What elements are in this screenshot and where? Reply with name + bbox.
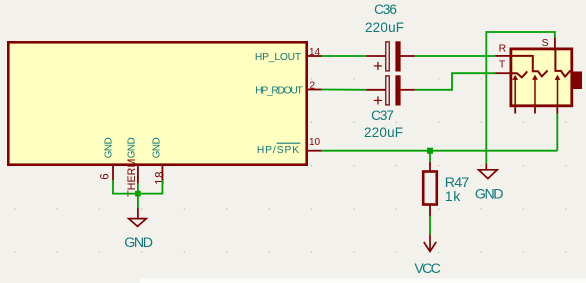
capacitor C36 left plate xyxy=(386,42,389,71)
ground symbol GND (right) xyxy=(479,164,498,179)
svg-text:C36: C36 xyxy=(374,2,396,17)
wire C36 to jack R xyxy=(415,55,495,57)
junction at R47 xyxy=(427,148,433,154)
svg-text:S: S xyxy=(542,37,549,49)
svg-text:HP_RDOUT: HP_RDOUT xyxy=(255,85,303,96)
resistor R47 bottom pin xyxy=(429,205,431,217)
pin 14 HP_LOUT stub xyxy=(308,55,322,57)
jack tip contact xyxy=(510,71,527,77)
svg-text:VCC: VCC xyxy=(414,261,440,277)
capacitor C36 right plate xyxy=(395,41,400,71)
capacitor C37 right plate xyxy=(395,75,400,105)
wire pin10 net xyxy=(322,150,558,152)
jack bottom pin 3 stub xyxy=(556,107,558,114)
wire THERM pin down xyxy=(137,184,139,208)
wire C37 to jack T xyxy=(415,73,495,90)
jack pin T stub xyxy=(495,72,510,74)
overline on SPK xyxy=(277,142,301,144)
jack bottom pin 1 stub xyxy=(514,107,516,114)
jack bottom pin 2 stub xyxy=(534,107,536,114)
capacitor C37 left plate xyxy=(386,76,389,105)
pin 6 GND stub (bottom) xyxy=(112,166,114,181)
svg-text:GND: GND xyxy=(124,235,152,251)
svg-text:220uF: 220uF xyxy=(365,20,404,35)
svg-text:GND: GND xyxy=(104,137,115,158)
capacitor C37 right pin xyxy=(400,89,415,91)
svg-text:2: 2 xyxy=(310,80,316,91)
wire pin2 to C37 xyxy=(322,89,367,91)
svg-text:220uF: 220uF xyxy=(364,125,403,140)
pin 2 HP_RDOUT stub xyxy=(308,89,322,91)
jack sleeve contact xyxy=(555,50,570,77)
svg-text:18: 18 xyxy=(155,171,167,185)
jack plug arrow 2 xyxy=(532,75,538,106)
jack ring contact xyxy=(510,56,547,77)
svg-text:C37: C37 xyxy=(371,108,393,123)
svg-text:HP_LOUT: HP_LOUT xyxy=(255,52,302,63)
jack plug arrow 3 xyxy=(555,75,561,106)
svg-text:6: 6 xyxy=(99,173,111,179)
junction at GND node xyxy=(135,191,141,197)
svg-text:HP/SPK: HP/SPK xyxy=(257,145,300,156)
capacitor C36 right pin xyxy=(400,55,415,57)
svg-text:+: + xyxy=(373,56,383,75)
jack plug arrow 1 xyxy=(512,75,518,106)
svg-text:GND: GND xyxy=(475,186,503,202)
IC U body xyxy=(8,42,306,164)
pin THERM stub (bottom) xyxy=(137,166,139,184)
svg-text:1k: 1k xyxy=(445,189,461,205)
svg-text:GND: GND xyxy=(151,137,162,158)
wire R47 to VCC xyxy=(429,216,431,234)
svg-text:GND: GND xyxy=(127,137,138,158)
jack pin R stub xyxy=(495,55,510,57)
wire pin6 down xyxy=(113,180,138,194)
power symbol VCC xyxy=(424,235,436,252)
jack pin S stub xyxy=(554,38,556,50)
pin 18 GND stub (bottom) xyxy=(161,166,163,181)
jack J body xyxy=(511,49,572,106)
capacitor C37 left pin xyxy=(366,89,385,91)
svg-text:T: T xyxy=(499,59,506,71)
wire pin18 down xyxy=(138,180,163,194)
ground symbol GND (under IC) xyxy=(129,208,147,226)
pin 10 HP/SPK stub xyxy=(308,150,322,152)
resistor R47 top wire xyxy=(429,151,431,162)
wire up to jack sleeve pin xyxy=(556,113,558,151)
jack plug opening xyxy=(572,72,582,90)
sleeve ground loop wire xyxy=(486,32,555,164)
resistor R47 body xyxy=(423,172,437,205)
resistor R47 top pin xyxy=(429,162,431,172)
svg-text:10: 10 xyxy=(309,137,321,148)
svg-text:R: R xyxy=(499,43,507,55)
svg-text:14: 14 xyxy=(309,47,321,58)
capacitor C36 left pin xyxy=(366,55,385,57)
wire pin14 to C36 xyxy=(322,55,367,57)
